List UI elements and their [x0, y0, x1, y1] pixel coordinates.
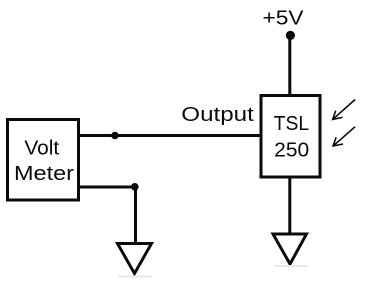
- wire: down to left ground: [134, 187, 137, 245]
- volt meter label: [14, 138, 74, 186]
- wire: volt meter low side to ground branch: [78, 186, 136, 189]
- node: junction dot on output wire: [111, 132, 119, 140]
- svg-text:Volt: Volt: [24, 138, 59, 160]
- svg-text:Output: Output: [181, 104, 254, 126]
- value label TSL 250: [274, 113, 310, 162]
- photo sensor U1 TSL250 (box): [261, 96, 320, 178]
- wire: TSL250 output pin to volt meter (net Output): [78, 134, 261, 137]
- svg-text:+5V: +5V: [263, 8, 305, 30]
- power label +5V: [263, 8, 305, 30]
- light ray arrow 1: [333, 100, 355, 120]
- svg-text:TSL: TSL: [274, 113, 310, 135]
- shadow artifact under left ground: [118, 276, 152, 278]
- volt meter M1 (box): [8, 120, 79, 201]
- node: junction dot at ground branch: [131, 183, 139, 191]
- ground (left): [118, 244, 152, 274]
- shadow artifact under right ground: [274, 265, 308, 267]
- ground (right): [273, 234, 307, 264]
- light ray arrow 2: [333, 127, 355, 146]
- net label Output: [181, 104, 254, 126]
- wire: +5V terminal down to TSL250 top pin: [288, 35, 291, 97]
- svg-text:Meter: Meter: [14, 163, 74, 185]
- node: +5V supply terminal dot: [286, 31, 295, 40]
- wire: TSL250 bottom pin to right ground: [288, 177, 291, 235]
- svg-text:250: 250: [274, 140, 309, 162]
